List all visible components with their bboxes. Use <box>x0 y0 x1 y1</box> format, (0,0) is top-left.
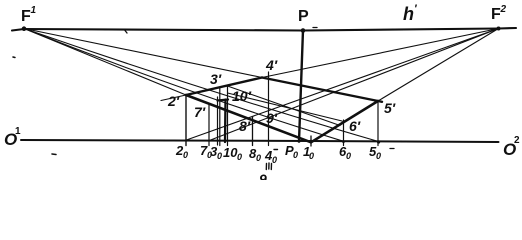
svg-text:7′: 7′ <box>194 104 206 120</box>
tick on horizon x=315 <box>313 27 317 29</box>
svg-text:9: 9 <box>259 171 267 180</box>
thin ray F2 through 4' extended past 2' <box>161 29 499 101</box>
svg-text:1: 1 <box>15 126 21 137</box>
horizon line h' <box>12 28 516 31</box>
vertical 6o-6' <box>343 120 345 146</box>
thin ray F1 to 4' (line F1-5') <box>24 29 262 78</box>
svg-text:0: 0 <box>346 151 351 161</box>
svg-text:0: 0 <box>309 151 314 161</box>
svg-text:F: F <box>491 6 501 23</box>
junction dot at 5o <box>377 140 380 143</box>
svg-text:2: 2 <box>500 4 507 15</box>
svg-text:0: 0 <box>217 151 222 161</box>
bold edge 5'-1o <box>311 101 378 142</box>
svg-text:2′: 2′ <box>167 93 180 109</box>
vertical 2o-2' <box>185 95 187 146</box>
vertical 4o-9o line <box>268 72 270 146</box>
junction dot at Po <box>298 140 301 143</box>
base line O1-O2 <box>21 140 499 142</box>
thin ray F2 to 5' (line F2-1o) <box>378 29 499 102</box>
svg-text:4′: 4′ <box>265 57 278 73</box>
thin ray F2 to 7o <box>209 29 499 141</box>
vertical 3o-3' <box>219 88 221 146</box>
svg-text:10′: 10′ <box>232 88 252 104</box>
tick at 1o <box>310 136 312 146</box>
bold edge 2'-4' <box>186 78 262 96</box>
bold vertical P-Po <box>299 30 303 142</box>
identity mark below 4o <box>266 163 271 170</box>
svg-text:9′: 9′ <box>266 110 278 126</box>
svg-text:P: P <box>298 8 309 25</box>
vertical 5o-5' <box>377 101 379 146</box>
svg-text:0: 0 <box>256 153 261 163</box>
thin ray F1 to 2' (line F1-1o) <box>24 29 186 96</box>
thin ray F1 to 6o <box>24 29 344 142</box>
svg-text:5′: 5′ <box>384 100 396 116</box>
bold inner horizontal connector <box>218 100 229 101</box>
svg-text:0: 0 <box>237 152 242 162</box>
svg-text:0: 0 <box>183 150 188 160</box>
bold inner vertical at 225 <box>224 100 227 143</box>
vertical 8o-8' <box>252 117 254 146</box>
svg-text:10: 10 <box>223 145 238 160</box>
thin diagonal 10' to 6' <box>228 93 343 121</box>
svg-text:1: 1 <box>31 5 37 16</box>
bold edge 4'-5' <box>262 78 382 102</box>
thin ray F1 to 5o <box>24 29 378 142</box>
svg-text:0: 0 <box>272 155 277 165</box>
thin ray F2 to 2o <box>185 29 499 141</box>
junction dot at 1o <box>309 140 313 144</box>
dash between 4o and Po <box>274 149 278 151</box>
svg-text:6′: 6′ <box>349 118 361 134</box>
svg-text:3′: 3′ <box>210 71 222 87</box>
thin diagonal through 10' toward base <box>228 86 341 126</box>
svg-text:F: F <box>21 8 31 25</box>
vanishing point F2 dot <box>497 27 501 31</box>
svg-text:0: 0 <box>376 151 381 161</box>
junction dot at 6o <box>342 140 345 143</box>
svg-text:h: h <box>403 4 414 24</box>
dash right of 5o <box>390 148 394 150</box>
vertical at 217.5 <box>217 97 219 145</box>
vertical 7o-7' <box>208 104 210 146</box>
vanishing point F1 dot <box>22 26 27 31</box>
principal point P dot <box>301 28 306 33</box>
bold edge 2'-1o <box>186 95 311 142</box>
stray speck below O1 <box>52 153 56 156</box>
svg-text:′: ′ <box>414 3 418 15</box>
tick on horizon x=126 <box>125 31 127 34</box>
svg-text:2: 2 <box>514 135 520 146</box>
vertical 10o-10' <box>227 86 229 146</box>
svg-text:0: 0 <box>293 150 298 160</box>
svg-text:8′: 8′ <box>239 118 251 134</box>
stray speck left <box>13 56 15 59</box>
